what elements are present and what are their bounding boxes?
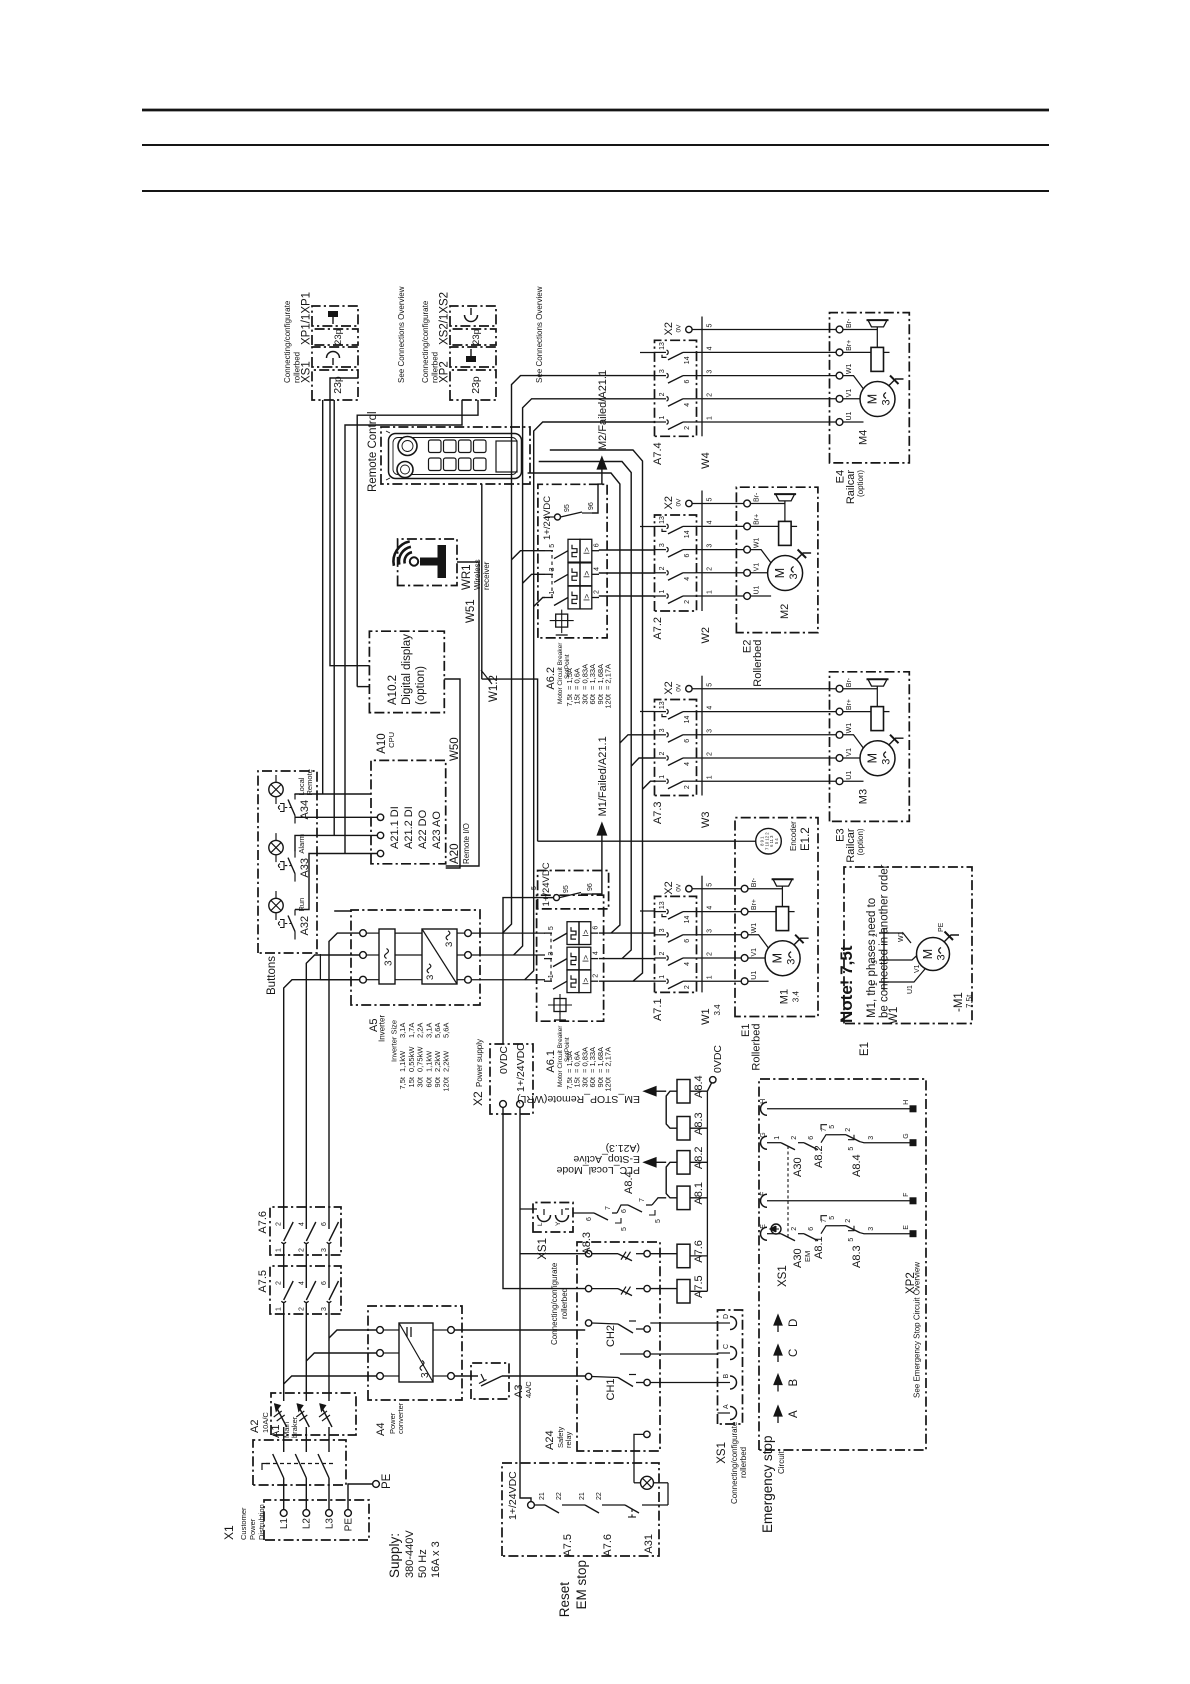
- enclosure E3 Railcar: [830, 672, 910, 863]
- wire branch L2 to A4: [306, 1353, 376, 1361]
- svg-text:X2: X2: [663, 881, 675, 894]
- svg-text:Connecting/configurate: Connecting/configurate: [550, 1262, 559, 1345]
- wire 0VDC rail to A24: [503, 1107, 585, 1288]
- svg-text:Br-: Br-: [846, 677, 853, 687]
- relay coil A8.1: [677, 1182, 705, 1210]
- svg-text:PE: PE: [938, 922, 945, 932]
- svg-text:60t: 60t: [424, 1076, 433, 1087]
- svg-text:A23 AO: A23 AO: [431, 811, 443, 849]
- svg-text:Reset: Reset: [557, 1582, 572, 1618]
- motor M2 3-phase: [751, 550, 812, 620]
- svg-text:1: 1: [659, 416, 666, 420]
- brake coil and brake for M4: [843, 320, 890, 371]
- page header rule 3: [142, 190, 1049, 192]
- svg-text:Br+: Br+: [846, 340, 853, 351]
- svg-text:3,1A: 3,1A: [424, 1023, 433, 1038]
- svg-text:90t: 90t: [433, 1076, 442, 1087]
- svg-text:21: 21: [539, 1492, 546, 1500]
- svg-text:0,75kW: 0,75kW: [416, 1046, 425, 1072]
- svg-text:3: 3: [786, 959, 798, 965]
- svg-text:6: 6: [594, 543, 601, 547]
- svg-text:2: 2: [707, 752, 714, 756]
- svg-text:96: 96: [587, 883, 594, 891]
- svg-text:EM: EM: [803, 1251, 812, 1262]
- svg-text:4A/C: 4A/C: [524, 1381, 533, 1398]
- cable marker W3: [700, 676, 714, 828]
- wire L2 phase: [306, 955, 359, 1510]
- svg-text:F: F: [903, 1193, 910, 1197]
- svg-text:2: 2: [684, 985, 691, 989]
- terminal X2 0V for M3: [663, 681, 836, 694]
- svg-text:23p: 23p: [332, 376, 344, 394]
- svg-text:6: 6: [684, 554, 691, 558]
- svg-text:L: L: [537, 1222, 544, 1226]
- svg-text:3: 3: [868, 1227, 875, 1231]
- power supply X2: [471, 1039, 533, 1114]
- buttons panel box: [258, 771, 317, 995]
- wire A4 output to A3 and A24 CH1: [454, 1375, 585, 1377]
- svg-text:W2: W2: [700, 627, 712, 644]
- svg-text:0VDC: 0VDC: [498, 1046, 510, 1074]
- branch rails A6.1 outputs to A7.3: [528, 450, 655, 981]
- svg-text:D: D: [788, 1319, 800, 1327]
- A6.1 label and setpoint table: [545, 1025, 613, 1092]
- svg-text:Connecting/configurate: Connecting/configurate: [421, 300, 430, 383]
- svg-text:Br-: Br-: [754, 492, 761, 502]
- contactor A7.6 main contacts: [257, 1207, 341, 1255]
- svg-text:A31: A31: [643, 1534, 655, 1554]
- wires A24 outputs to connector XS1 A-D: [650, 1323, 717, 1383]
- svg-text:5: 5: [848, 1238, 855, 1242]
- connector XP2: [439, 347, 497, 400]
- remote control handset drawing: [386, 431, 522, 480]
- svg-text:M: M: [866, 753, 880, 763]
- svg-text:EM stop: EM stop: [574, 1560, 589, 1610]
- label connecting/configurate rollerbed (XS1): [283, 300, 302, 383]
- svg-text:A6.1: A6.1: [545, 1050, 557, 1073]
- svg-text:A8.4: A8.4: [693, 1075, 705, 1098]
- svg-text:W4: W4: [700, 452, 712, 469]
- svg-text:B: B: [723, 1374, 730, 1379]
- power converter A4: [368, 1306, 462, 1436]
- svg-text:1: 1: [549, 591, 556, 595]
- svg-text:V1: V1: [751, 948, 758, 957]
- pushbutton unit A34: [269, 769, 314, 823]
- svg-text:1: 1: [707, 775, 714, 779]
- svg-text:13: 13: [659, 342, 666, 350]
- svg-text:23p: 23p: [333, 329, 344, 345]
- svg-text:W1: W1: [888, 1007, 900, 1024]
- svg-text:1: 1: [707, 416, 714, 420]
- svg-text:(option): (option): [856, 470, 865, 497]
- motor terminals U1 V1 W1 Br+ Br- (M2): [744, 492, 761, 599]
- svg-text:Remote: Remote: [305, 769, 314, 795]
- svg-text:4: 4: [594, 567, 601, 571]
- svg-text:W1: W1: [898, 931, 905, 942]
- supply rating note: [387, 1530, 442, 1578]
- label see connections overview (XP2): [535, 286, 544, 383]
- svg-text:Br-: Br-: [846, 318, 853, 328]
- svg-text:1: 1: [276, 1307, 283, 1311]
- label see connections overview (XS1): [397, 286, 406, 383]
- relay coil A8.2: [677, 1146, 705, 1174]
- svg-text:Remote Control: Remote Control: [367, 411, 379, 492]
- cable W50 A10.2 to A20: [444, 679, 461, 868]
- svg-text:16A x 3: 16A x 3: [430, 1541, 442, 1578]
- wire 24VDC feed to A6.1 aux contact: [503, 898, 554, 1044]
- svg-text:(option): (option): [415, 666, 427, 705]
- svg-text:U1: U1: [751, 971, 758, 980]
- svg-text:= 2,17A: = 2,17A: [604, 1047, 613, 1073]
- connector XP1/1XP1: [301, 292, 359, 345]
- wires A7.2 to motor terminals: [697, 526, 744, 596]
- svg-text:A8.3: A8.3: [693, 1112, 705, 1135]
- svg-text:A: A: [723, 1404, 730, 1409]
- svg-text:M: M: [921, 949, 935, 959]
- svg-text:A7.5: A7.5: [257, 1270, 269, 1293]
- wire 24VDC rail to A24 and reset circuit: [520, 1107, 585, 1501]
- svg-text:V1: V1: [846, 748, 853, 757]
- svg-text:W1: W1: [751, 923, 758, 934]
- svg-text:A: A: [788, 1410, 800, 1418]
- svg-text:1: 1: [872, 982, 879, 986]
- svg-text:CH2: CH2: [605, 1325, 617, 1347]
- svg-text:Rollerbed: Rollerbed: [752, 640, 764, 687]
- svg-text:0VDC: 0VDC: [712, 1045, 724, 1073]
- label connecting/configurate rollerbed (XP2): [421, 300, 440, 383]
- svg-text:Y: Y: [555, 1221, 562, 1226]
- svg-text:W3: W3: [700, 812, 712, 829]
- svg-text:A21.2 DI: A21.2 DI: [403, 806, 415, 849]
- svg-text:A8.3: A8.3: [851, 1245, 863, 1268]
- svg-text:X2: X2: [663, 322, 675, 335]
- svg-text:3: 3: [707, 729, 714, 733]
- wire branch L3 to A4: [329, 1330, 377, 1338]
- svg-text:E: E: [760, 1224, 767, 1229]
- svg-text:CPU: CPU: [387, 732, 396, 748]
- note box 7.5t: [837, 864, 972, 1056]
- emergency stop circuit box: [759, 1079, 926, 1533]
- svg-text:95: 95: [564, 504, 571, 512]
- svg-text:6: 6: [684, 380, 691, 384]
- svg-text:3: 3: [420, 1372, 431, 1378]
- relay coil A7.5: [677, 1275, 705, 1303]
- svg-text:A8.1: A8.1: [693, 1182, 705, 1205]
- page header rule 1: [142, 109, 1049, 112]
- svg-text:I>: I>: [580, 929, 590, 936]
- svg-text:See Connections Overview: See Connections Overview: [535, 286, 544, 383]
- coil bottom bus to 0VDC: [690, 1045, 724, 1292]
- svg-text:1: 1: [548, 974, 555, 978]
- svg-text:W1: W1: [754, 537, 761, 548]
- svg-text:B: B: [788, 1379, 800, 1387]
- svg-text:2: 2: [298, 1307, 305, 1311]
- motor terminals U1 V1 W1 Br+ Br- (M3): [836, 677, 853, 784]
- svg-text:22: 22: [596, 1492, 603, 1500]
- svg-text:C: C: [788, 1349, 800, 1357]
- svg-text:120t: 120t: [604, 1076, 613, 1092]
- svg-text:3: 3: [444, 942, 455, 947]
- svg-text:W50: W50: [449, 737, 461, 761]
- svg-text:4: 4: [707, 906, 714, 910]
- svg-text:2: 2: [707, 393, 714, 397]
- svg-text:2,2A: 2,2A: [416, 1023, 425, 1038]
- pushbutton unit A32: [269, 891, 311, 940]
- svg-text:I>: I>: [581, 594, 591, 601]
- svg-text:A22 DO: A22 DO: [417, 809, 429, 849]
- svg-text:L1: L1: [279, 1518, 290, 1530]
- svg-text:XP1/1XP1: XP1/1XP1: [301, 292, 313, 345]
- connector XS1 A-D: [716, 1310, 748, 1504]
- emergency loop wire G: [760, 1125, 917, 1177]
- relay coil A8.4: [677, 1075, 705, 1103]
- svg-text:Connecting/configurate: Connecting/configurate: [283, 300, 292, 383]
- svg-text:H: H: [903, 1100, 910, 1105]
- svg-text:5: 5: [707, 324, 714, 328]
- svg-text:5: 5: [621, 1227, 628, 1231]
- svg-text:A7.5: A7.5: [562, 1534, 574, 1557]
- svg-text:13: 13: [659, 516, 666, 524]
- svg-text:5,6A: 5,6A: [442, 1023, 451, 1038]
- motor terminals U1 V1 W1 Br+ Br- (M4): [836, 318, 853, 425]
- signal arrow M2/Failed/A21.1: [592, 370, 609, 513]
- svg-text:4: 4: [707, 346, 714, 350]
- inverter A5: [351, 910, 480, 1042]
- svg-text:2: 2: [707, 952, 714, 956]
- cable marker W4: [700, 317, 714, 469]
- arrows A B C D references: [774, 1315, 800, 1423]
- svg-text:14: 14: [684, 356, 691, 364]
- svg-text:(A21.3): (A21.3): [606, 1142, 640, 1154]
- emergency stop actuator A30: [770, 1146, 812, 1262]
- safety relay A24: [544, 1242, 660, 1451]
- rotated landscape schematic group: [222, 286, 974, 1617]
- svg-text:1: 1: [659, 590, 666, 594]
- svg-text:Buttons: Buttons: [266, 956, 278, 995]
- enclosure E4 Railcar: [830, 313, 910, 505]
- svg-text:4: 4: [707, 520, 714, 524]
- svg-text:PE: PE: [381, 1473, 393, 1489]
- svg-text:3: 3: [936, 954, 948, 960]
- svg-text:A8.1: A8.1: [813, 1236, 825, 1259]
- svg-text:5: 5: [548, 926, 555, 930]
- svg-text:Motor Circuit Breaker: Motor Circuit Breaker: [557, 642, 564, 704]
- svg-text:3: 3: [659, 543, 666, 547]
- svg-text:22: 22: [556, 1492, 563, 1500]
- svg-text:1,7A: 1,7A: [407, 1023, 416, 1038]
- A6.2 label and setpoint table: [545, 642, 613, 709]
- svg-text:95: 95: [563, 885, 570, 893]
- svg-text:A30: A30: [792, 1157, 804, 1177]
- svg-text:A34: A34: [299, 800, 311, 820]
- svg-text:4: 4: [707, 706, 714, 710]
- svg-text:6: 6: [321, 1222, 328, 1226]
- A6.1 aux box 24VDC with contact 95-96: [531, 862, 609, 909]
- svg-text:E1: E1: [859, 1042, 871, 1056]
- wires A5 to A6.1: [471, 933, 545, 980]
- svg-text:Br+: Br+: [846, 699, 853, 710]
- svg-text:6: 6: [321, 1281, 328, 1285]
- svg-text:I>: I>: [581, 571, 591, 578]
- svg-text:A24: A24: [544, 1430, 556, 1450]
- svg-text:3,1A: 3,1A: [398, 1023, 407, 1038]
- contactor A7.1: [652, 896, 697, 1021]
- svg-text:7: 7: [639, 1198, 646, 1202]
- svg-text:Customer: Customer: [239, 1507, 248, 1540]
- svg-text:A2: A2: [249, 1420, 261, 1433]
- remote control box: [367, 411, 530, 492]
- svg-text:W1: W1: [846, 723, 853, 734]
- svg-text:7: 7: [605, 1206, 612, 1210]
- svg-text:X2: X2: [663, 496, 675, 509]
- svg-text:6: 6: [684, 939, 691, 943]
- svg-text:M4: M4: [858, 430, 870, 445]
- svg-text:50 Hz: 50 Hz: [417, 1549, 429, 1578]
- svg-text:2: 2: [276, 1222, 283, 1226]
- pushbutton unit A33: [269, 833, 311, 882]
- svg-text:7: 7: [821, 1128, 828, 1132]
- svg-text:2: 2: [659, 392, 666, 396]
- svg-text:XS2/1XS2: XS2/1XS2: [439, 292, 451, 345]
- svg-text:2: 2: [593, 974, 600, 978]
- svg-text:EM_STOP_Remote(WRL): EM_STOP_Remote(WRL): [517, 1093, 640, 1105]
- svg-text:13: 13: [659, 901, 666, 909]
- svg-text:3: 3: [707, 929, 714, 933]
- svg-text:Power: Power: [248, 1518, 257, 1540]
- svg-text:PE: PE: [344, 1518, 355, 1532]
- svg-text:A7.2: A7.2: [652, 617, 664, 640]
- cable W1.2 encoder to control: [481, 484, 735, 841]
- svg-text:XS1: XS1: [777, 1265, 789, 1287]
- svg-text:See Connections Overview: See Connections Overview: [397, 286, 406, 383]
- svg-text:0V: 0V: [676, 883, 683, 892]
- svg-text:M1: M1: [779, 989, 791, 1004]
- svg-text:5: 5: [829, 1125, 836, 1129]
- svg-text:1: 1: [707, 975, 714, 979]
- svg-text:5: 5: [707, 683, 714, 687]
- svg-text:(option): (option): [856, 828, 865, 855]
- svg-text:3.4: 3.4: [792, 991, 801, 1003]
- svg-text:Remote I/O: Remote I/O: [462, 823, 471, 864]
- phase rails to A6.2 and A7.4: [503, 376, 655, 980]
- cable marker W1: [700, 876, 722, 1025]
- svg-text:Note! 7,5t: Note! 7,5t: [837, 945, 856, 1023]
- svg-text:3.4: 3.4: [713, 1004, 722, 1016]
- svg-text:A8.2: A8.2: [813, 1145, 825, 1168]
- wire L1 phase: [284, 980, 360, 1510]
- surge protection A2 10A/C: [249, 1393, 356, 1435]
- svg-text:3: 3: [321, 1248, 328, 1252]
- svg-text:6: 6: [684, 739, 691, 743]
- svg-text:L3: L3: [325, 1518, 336, 1530]
- svg-text:Circuit: Circuit: [777, 1451, 786, 1474]
- cable W51 WR1 to A20: [446, 562, 479, 866]
- svg-text:1+/24VDC: 1+/24VDC: [515, 1043, 527, 1092]
- svg-text:rollerbed: rollerbed: [560, 1288, 569, 1319]
- contactor A7.2: [652, 515, 697, 640]
- svg-text:3: 3: [881, 759, 893, 765]
- inverter size table: [390, 1020, 451, 1092]
- svg-text:I>: I>: [580, 955, 590, 962]
- enclosure E2 Rollerbed: [736, 487, 818, 686]
- svg-text:G: G: [903, 1133, 910, 1138]
- svg-text:A8.3: A8.3: [581, 1232, 593, 1255]
- svg-text:V1: V1: [754, 563, 761, 572]
- svg-text:A7.6: A7.6: [602, 1534, 614, 1557]
- svg-text:2: 2: [684, 426, 691, 430]
- svg-text:V1: V1: [914, 964, 921, 973]
- contactor A7.3: [652, 700, 697, 825]
- svg-text:M1, the phases need to: M1, the phases need to: [866, 898, 878, 1018]
- svg-text:M1/Failed/A21.1: M1/Failed/A21.1: [597, 736, 609, 816]
- wireless receiver WR1: [393, 539, 491, 590]
- motor M4 3-phase: [843, 376, 904, 446]
- svg-text:M: M: [771, 953, 785, 963]
- signal arrow M1/Failed/A21.1: [592, 736, 609, 894]
- svg-text:A32: A32: [299, 916, 311, 936]
- svg-text:Power supply: Power supply: [475, 1039, 484, 1087]
- svg-text:receiver: receiver: [482, 561, 491, 590]
- svg-text:D: D: [723, 1314, 730, 1319]
- svg-text:3: 3: [872, 960, 879, 964]
- svg-text:XP2: XP2: [905, 1272, 917, 1294]
- svg-text:I>: I>: [581, 547, 591, 554]
- coil pair bus A8.3/A8.4 with EM arrow junction: [666, 1091, 677, 1128]
- svg-text:23p: 23p: [471, 329, 482, 345]
- svg-text:7,5t: 7,5t: [398, 1076, 407, 1089]
- svg-text:15t: 15t: [407, 1076, 416, 1087]
- svg-text:4: 4: [684, 577, 691, 581]
- svg-text:W1.2: W1.2: [488, 675, 500, 702]
- wire aux 13 feeds: [640, 353, 655, 912]
- svg-text:Br-: Br-: [751, 877, 758, 887]
- svg-text:I>: I>: [580, 978, 590, 985]
- signal arrow EM_STOP_Remote(WRL): [517, 1087, 666, 1105]
- svg-text:M2/Failed/A21.1: M2/Failed/A21.1: [597, 370, 609, 450]
- svg-text:6: 6: [621, 1209, 628, 1213]
- svg-text:4: 4: [298, 1281, 305, 1285]
- svg-text:2: 2: [659, 566, 666, 570]
- svg-text:1: 1: [276, 1248, 283, 1252]
- svg-text:converter: converter: [396, 1402, 405, 1434]
- relay coil A7.6: [677, 1240, 705, 1268]
- svg-text:M2: M2: [779, 604, 791, 619]
- svg-text:Rollerbed: Rollerbed: [751, 1024, 763, 1071]
- svg-text:A8.4: A8.4: [623, 1171, 635, 1194]
- svg-text:120t: 120t: [442, 1076, 451, 1092]
- connector XS2/1XS2: [439, 292, 497, 345]
- svg-text:3: 3: [659, 928, 666, 932]
- svg-text:0V: 0V: [676, 498, 683, 507]
- svg-text:-M1: -M1: [953, 992, 965, 1012]
- svg-text:M3: M3: [858, 789, 870, 804]
- svg-text:6: 6: [593, 926, 600, 930]
- svg-text:1,1kW: 1,1kW: [398, 1050, 407, 1072]
- svg-text:7: 7: [821, 1219, 828, 1223]
- svg-text:L2: L2: [302, 1518, 313, 1530]
- svg-text:XS1: XS1: [537, 1238, 549, 1260]
- svg-text:5: 5: [655, 1219, 662, 1223]
- svg-text:5: 5: [531, 886, 538, 890]
- emergency loop wire H: [760, 1099, 917, 1116]
- svg-text:4: 4: [684, 762, 691, 766]
- svg-text:96: 96: [588, 502, 595, 510]
- contactor A7.5 main contacts: [257, 1266, 341, 1314]
- terminal X2 0V for M2: [663, 496, 744, 509]
- svg-text:3: 3: [707, 544, 714, 548]
- svg-text:U1: U1: [846, 411, 853, 420]
- svg-text:relay: relay: [564, 1431, 573, 1448]
